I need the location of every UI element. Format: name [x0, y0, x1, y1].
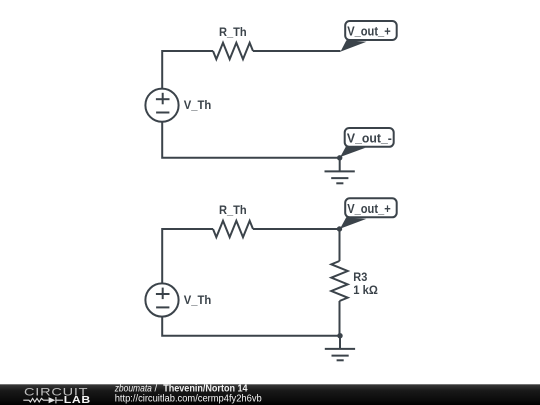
resistor R3 (bottom circuit) [331, 261, 347, 301]
svg-text:R_Th: R_Th [219, 25, 247, 39]
svg-text:http://circuitlab.com/cermp4fy: http://circuitlab.com/cermp4fy2h6vb [115, 394, 262, 405]
wire from R_Th to V_out_+ node (bottom circuit) [253, 228, 340, 230]
svg-text:R_Th: R_Th [219, 203, 247, 217]
svg-text:V_out_+: V_out_+ [347, 25, 391, 39]
footer credit line: zboumata / Thevenin/Norton 14 [114, 384, 248, 395]
CircuitLab logo wordmark CIRCUIT [24, 387, 88, 399]
svg-text:V_out_-: V_out_- [347, 132, 392, 146]
ground (top circuit) [325, 158, 355, 184]
CircuitLab logo wordmark LAB [64, 395, 91, 405]
wire from node down to R3 [339, 229, 341, 261]
voltage source V_Th (bottom circuit) [145, 283, 178, 316]
svg-text:V_Th: V_Th [184, 293, 212, 307]
wire left vertical below source (bottom circuit) [162, 316, 340, 336]
svg-text:V_Th: V_Th [184, 98, 212, 112]
wire top-left L of circuit 2 [162, 229, 213, 283]
wire from R3 down to ground node [339, 301, 341, 336]
resistor R_Th (top circuit) [213, 43, 253, 59]
CircuitLab logo schematic squiggle (resistor + diode) [23, 397, 63, 403]
svg-text:R3: R3 [353, 270, 367, 284]
label V_Th (bottom circuit) [184, 293, 212, 307]
label 1 kOhm value of R3 [353, 283, 378, 297]
node flag V_out_+ (bottom circuit) [340, 198, 397, 229]
label R3 [353, 270, 367, 284]
CircuitLab logo diode triangle [49, 397, 56, 403]
label R_Th (top circuit) [219, 25, 247, 39]
node flag V_out_- (top circuit) [340, 128, 394, 157]
svg-text:LAB: LAB [64, 395, 91, 405]
footer URL line [115, 394, 262, 405]
wire from R_Th to V_out_+ node (top circuit) [253, 50, 341, 52]
wire top-left L of circuit 1 [162, 51, 213, 88]
svg-text:1 kΩ: 1 kΩ [353, 283, 378, 297]
footer black bar [0, 384, 540, 405]
wire left vertical below source (top circuit) [162, 121, 340, 157]
node flag V_out_+ (top circuit) [341, 21, 397, 52]
resistor R_Th (bottom circuit) [213, 221, 253, 237]
junction dot at V_out_- node (top circuit) [337, 155, 342, 160]
label V_Th (top circuit) [184, 98, 212, 112]
voltage source V_Th (top circuit) [145, 89, 178, 122]
svg-text:V_out_+: V_out_+ [347, 202, 391, 216]
junction dot at V_out_+ node (bottom circuit) [337, 226, 342, 231]
ground (bottom circuit) [325, 336, 355, 361]
junction dot at ground node (bottom circuit) [337, 333, 342, 338]
label R_Th (bottom circuit) [219, 203, 247, 217]
